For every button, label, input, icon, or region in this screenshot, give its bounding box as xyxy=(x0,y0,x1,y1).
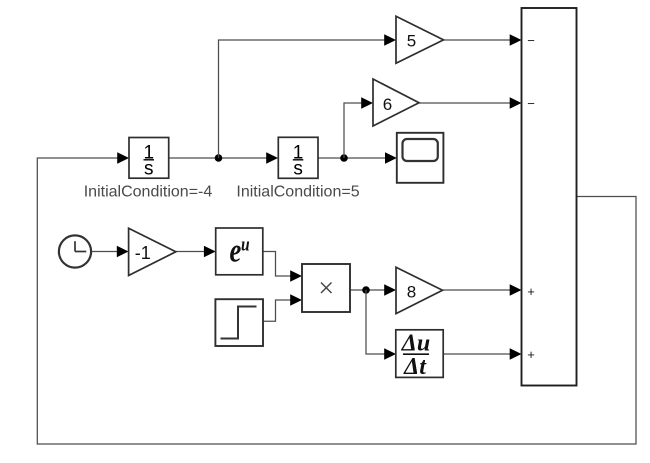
wire: Derivative output to Sum input 4 xyxy=(443,348,521,359)
wire: Gain 5 output to Sum input 1 xyxy=(444,34,522,45)
step block xyxy=(215,299,263,346)
node: junction after Integrator1 xyxy=(215,154,223,162)
wire: junction after Integrator1 up to Gain 5 input xyxy=(219,34,397,158)
gain block 8 xyxy=(396,267,443,313)
svg-text:+: + xyxy=(527,284,535,299)
wire: Clock output to Gain -1 input xyxy=(91,246,129,257)
wire: Gain -1 output to Math Function e^u input xyxy=(176,246,216,257)
svg-text:InitialCondition=-4: InitialCondition=-4 xyxy=(84,184,213,201)
integrator block 1 (1/s) xyxy=(129,138,169,180)
clock block xyxy=(59,235,91,267)
gain block 6 xyxy=(373,79,419,126)
svg-text:6: 6 xyxy=(383,95,392,114)
svg-text:8: 8 xyxy=(407,283,416,302)
node: junction after Product xyxy=(362,286,370,294)
svg-text:s: s xyxy=(293,159,303,180)
wire: Step output to Product bottom input xyxy=(263,294,302,321)
product block (multiply) xyxy=(302,264,350,312)
integrator block 2 (1/s) xyxy=(278,137,318,179)
gain block 5 xyxy=(396,16,444,63)
derivative block du/dt xyxy=(396,330,443,380)
wire: junction after Integrator2 up to Gain 6 input xyxy=(344,97,373,158)
svg-text:+: + xyxy=(527,347,535,362)
svg-text:−: − xyxy=(527,96,535,111)
wire: e^u output to Product top input xyxy=(263,252,302,282)
wire: Gain 6 output to Sum input 2 xyxy=(419,97,522,108)
math function block e^u xyxy=(216,228,263,275)
wire: junction after Product down to Derivative input xyxy=(366,290,396,360)
svg-text:-1: -1 xyxy=(135,243,151,263)
wire: Integrator1 output to Integrator2 input xyxy=(169,152,278,163)
sum block xyxy=(522,8,577,386)
svg-text:e: e xyxy=(230,231,242,269)
svg-text:−: − xyxy=(527,33,535,48)
svg-text:Δt: Δt xyxy=(403,354,427,380)
wire: feedback loop from Sum output around bottom to Integrator1 input xyxy=(37,152,636,444)
scope block xyxy=(397,133,444,183)
svg-text:s: s xyxy=(144,159,154,180)
svg-text:Δu: Δu xyxy=(401,330,430,356)
node: junction after Integrator2 xyxy=(340,154,348,162)
wire: Product output to Gain 8 input xyxy=(350,284,396,295)
gain block -1 xyxy=(129,228,176,275)
svg-text:5: 5 xyxy=(407,31,416,50)
wire: Gain 8 output to Sum input 3 xyxy=(443,284,522,295)
svg-text:u: u xyxy=(241,234,250,255)
wire: Integrator2 output to Scope input xyxy=(318,152,397,163)
svg-text:InitialCondition=5: InitialCondition=5 xyxy=(236,184,359,201)
